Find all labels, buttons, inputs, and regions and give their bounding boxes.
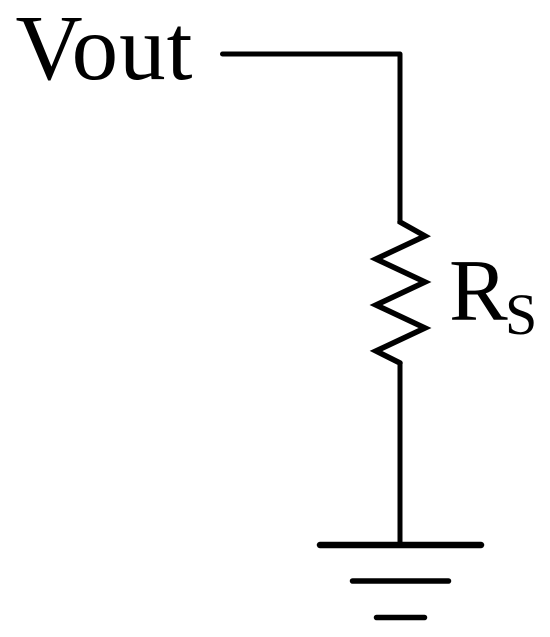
wire: vertical from resistor bottom to ground — [398, 362, 403, 545]
wire: vertical from corner down to resistor top — [398, 54, 403, 224]
svg-text:Vout: Vout — [16, 0, 194, 100]
svg-text:S: S — [505, 282, 537, 347]
ground bottom bar — [377, 615, 425, 621]
ground top bar — [320, 542, 481, 549]
resistor RS — [376, 222, 425, 363]
wire: horizontal from Vout to corner — [223, 52, 401, 57]
svg-text:R: R — [449, 243, 508, 340]
ground middle bar — [353, 578, 449, 584]
